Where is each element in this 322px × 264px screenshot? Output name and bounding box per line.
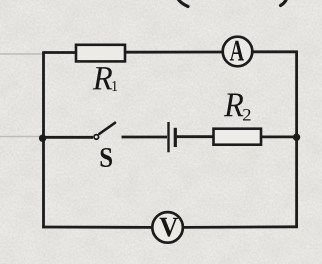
open parenthesis tip (cropped)	[178, 0, 189, 7]
wire: switch to battery	[122, 136, 168, 139]
ruled line middle left	[0, 136, 42, 138]
circuit ink (soft-blurred group)	[39, 0, 300, 243]
wire: left junction to switch	[44, 136, 94, 139]
wire: top-left segment (corner to R1)	[44, 51, 78, 54]
close parenthesis tip (cropped)	[281, 0, 288, 6]
battery cell	[169, 122, 176, 152]
resistor R1	[76, 45, 125, 62]
wire: bottom segment left of voltmeter	[42, 226, 152, 229]
wire: top segment R1 to ammeter	[124, 51, 223, 54]
wire: left vertical	[42, 51, 45, 228]
ruled line upper left	[0, 53, 43, 55]
label S	[101, 148, 112, 167]
label R2	[224, 93, 251, 120]
wire: R2 to right junction	[260, 135, 297, 138]
switch S	[94, 123, 115, 139]
wire: top segment ammeter to top-right corner	[252, 50, 298, 53]
node: left junction	[39, 135, 46, 142]
ammeter A	[223, 37, 253, 67]
wire: right vertical	[295, 51, 298, 228]
resistor R2	[214, 129, 262, 145]
wire: battery to R2	[177, 135, 214, 138]
wire: bottom segment right of voltmeter	[184, 225, 298, 228]
label R1	[93, 67, 118, 91]
node: right junction	[293, 134, 300, 141]
voltmeter V	[152, 212, 183, 243]
